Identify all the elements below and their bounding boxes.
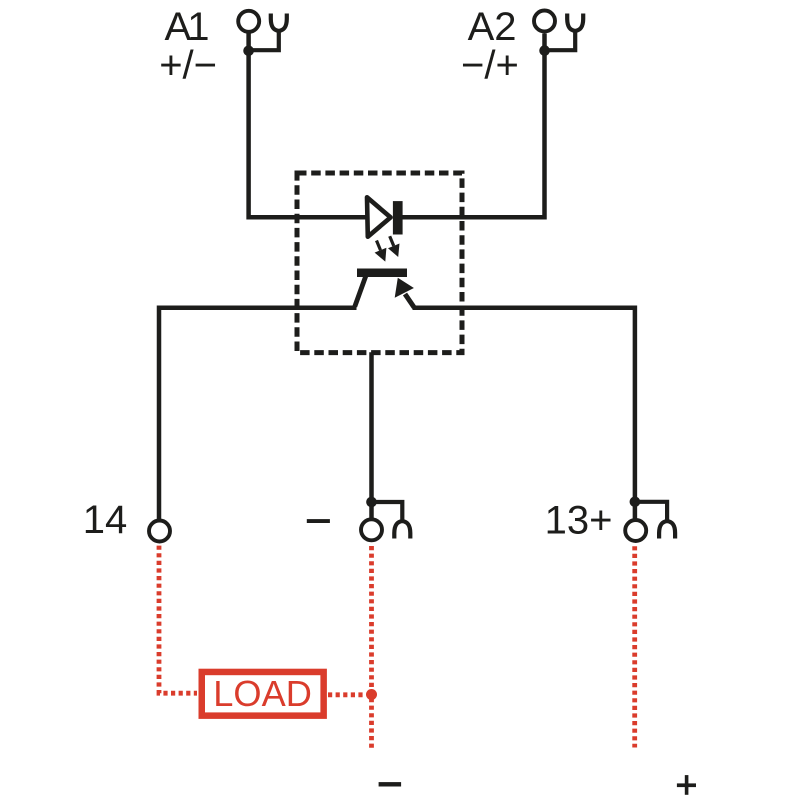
wire dot to minus circle — [369, 502, 374, 521]
phototransistor emitter leg with arrow — [395, 278, 415, 308]
red dotted wire 14 to LOAD — [159, 546, 197, 694]
junction dot A2 — [539, 45, 550, 56]
LED light arrow 2 — [388, 236, 400, 257]
svg-text:13+: 13+ — [545, 498, 613, 542]
label plus bottom — [677, 775, 696, 795]
svg-text:A2: A2 — [468, 5, 517, 49]
terminal minus fork (downward) — [372, 502, 411, 539]
junction dot minus terminal — [366, 497, 377, 508]
svg-text:14: 14 — [83, 498, 128, 542]
wire emitter to terminal 13 — [413, 308, 635, 502]
svg-text:+/−: +/− — [159, 44, 217, 88]
label minus bottom — [379, 782, 402, 786]
phototransistor collector leg — [355, 276, 366, 307]
terminal minus circle — [361, 519, 382, 540]
wire internal minus stub — [369, 352, 374, 502]
terminal 13 circle — [625, 520, 646, 541]
red dotted wire 13+ vertical — [632, 546, 637, 747]
LED light arrow 1 — [375, 241, 387, 262]
terminal A2 circle — [534, 11, 555, 32]
optocoupler dashed box — [297, 173, 462, 353]
red junction dot node minus — [366, 689, 377, 700]
svg-text:LOAD: LOAD — [213, 673, 312, 714]
label minus terminal — [307, 519, 330, 523]
terminal 14 circle — [149, 521, 170, 542]
terminal A2 fork — [545, 14, 584, 51]
terminal 13 fork (downward) — [635, 502, 675, 539]
svg-text:A1: A1 — [165, 5, 210, 49]
LED cathode bar — [393, 201, 403, 234]
wire collector to terminal 14 — [159, 308, 357, 521]
wire dot to 13 circle — [633, 502, 638, 521]
terminal A1 fork — [249, 14, 287, 51]
junction dot A1 — [243, 46, 254, 57]
red dotted wire LOAD to minus node — [328, 692, 366, 697]
LED D1 triangle — [367, 197, 391, 236]
wire A2 down and left to LED cathode — [398, 34, 545, 218]
phototransistor base bar — [357, 269, 407, 278]
junction dot 13 — [630, 497, 641, 508]
red dotted wire minus vertical — [369, 546, 374, 751]
LOAD box — [202, 672, 324, 716]
terminal A1 circle — [238, 11, 259, 32]
wire A1 down and right to LED anode — [249, 34, 368, 218]
svg-text:−/+: −/+ — [461, 44, 519, 88]
